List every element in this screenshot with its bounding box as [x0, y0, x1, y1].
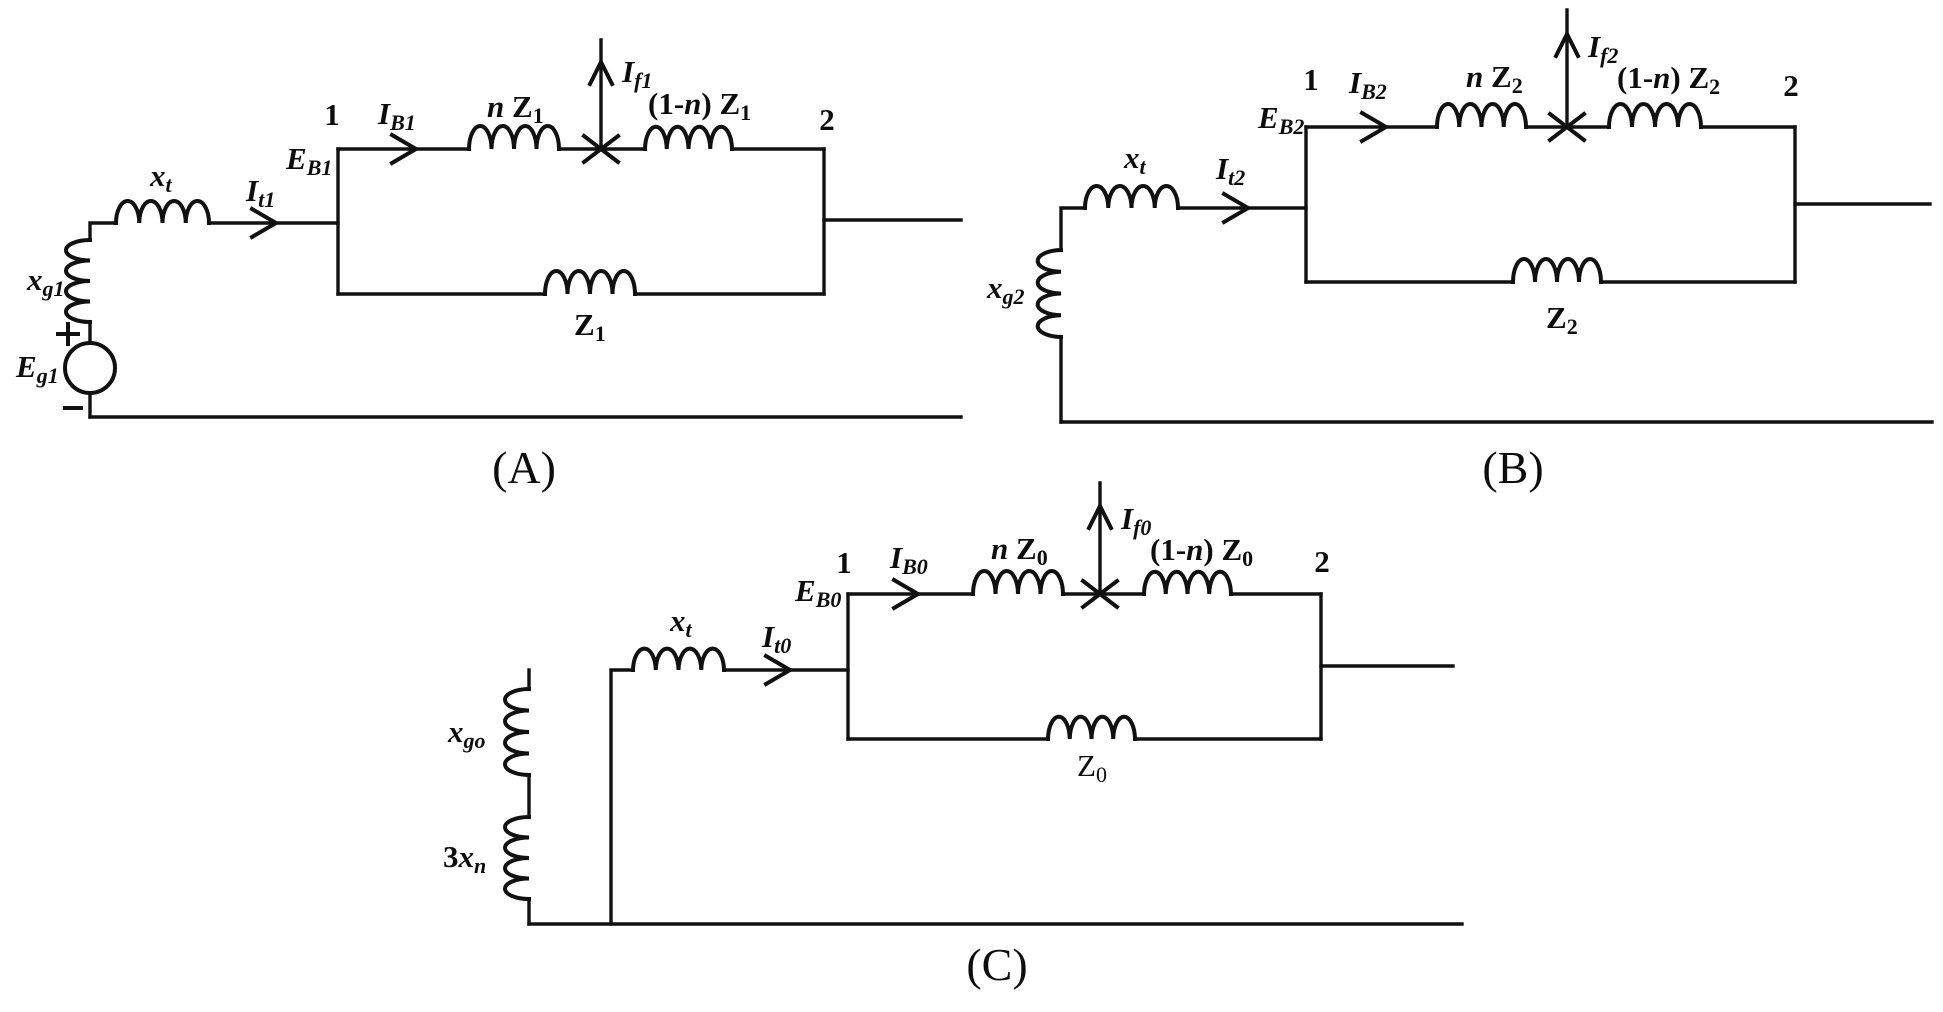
svg-text:xg1: xg1 [26, 262, 65, 301]
wire return bottom (C) [529, 922, 1462, 925]
wire 3xn bottom stem [527, 899, 530, 924]
svg-text:n Z2: n Z2 [1466, 59, 1523, 98]
svg-text:Eg1: Eg1 [15, 349, 59, 388]
inductor Z2 [1513, 259, 1601, 282]
svg-text:xt: xt [669, 603, 693, 642]
svg-text:n Z1: n Z1 [487, 89, 544, 128]
wire xg2 down stem [1059, 337, 1062, 422]
fault X mark (A) [584, 136, 618, 162]
wire top branch right (C) [1231, 592, 1321, 595]
arrow I_f1 [590, 62, 612, 84]
node 2 bus (B) [1793, 127, 1796, 282]
wire top branch right (B) [1701, 125, 1795, 128]
arrow I_f0 [1089, 506, 1111, 528]
inductor x_g1 [66, 240, 90, 322]
wire output (C) [1321, 664, 1453, 667]
node 1 bus (C) [846, 594, 849, 739]
source E_g1 [65, 343, 115, 393]
wire under fault point (A) [559, 147, 645, 150]
svg-text:Z1: Z1 [574, 307, 606, 346]
svg-text:(A): (A) [492, 442, 556, 493]
fault X mark (C) [1083, 581, 1117, 607]
wire top branch left [338, 147, 469, 150]
svg-text:(1-n) Z0: (1-n) Z0 [1150, 532, 1253, 571]
inductor x_t (A) [116, 201, 209, 223]
wire output (B) [1795, 202, 1930, 205]
wire bottom branch left (C) [848, 737, 1048, 740]
minus sign [65, 406, 81, 410]
node 2 bus (C) [1319, 594, 1322, 739]
svg-text:(C): (C) [966, 939, 1027, 990]
wire under fault point (B) [1526, 125, 1609, 128]
svg-text:EB0: EB0 [794, 573, 841, 612]
wire bottom branch right (A) [635, 292, 824, 295]
fault X mark (B) [1550, 114, 1584, 140]
wire xt to node 1 (C) [724, 668, 848, 671]
svg-text:xg2: xg2 [986, 270, 1025, 309]
wire under fault point (C) [1063, 592, 1144, 595]
svg-text:Z0: Z0 [1077, 748, 1107, 787]
wire xgo top stem [527, 670, 530, 689]
wire xg1 top to corner [90, 223, 116, 240]
inductor x_t (B) [1085, 186, 1178, 208]
plus sign [58, 324, 78, 344]
wire riser to xt (C) [611, 670, 633, 924]
svg-text:EB2: EB2 [1257, 100, 1304, 139]
wire between xgo and 3xn [527, 775, 530, 817]
arrow I_B0 [894, 580, 918, 608]
wire bottom branch left (B) [1306, 280, 1513, 283]
svg-text:(B): (B) [1482, 442, 1543, 493]
arrow I_t2 [1224, 194, 1248, 222]
svg-text:(1-n) Z1: (1-n) Z1 [648, 86, 751, 125]
wire return bottom (A) [90, 415, 961, 418]
svg-text:1: 1 [324, 97, 340, 132]
svg-text:It2: It2 [1215, 151, 1245, 190]
wire top branch right [732, 147, 824, 150]
svg-text:IB0: IB0 [889, 540, 928, 579]
fault line I_f2 [1565, 10, 1568, 127]
inductor x_t (C) [633, 649, 724, 670]
inductor (1-n) Z1 [645, 127, 732, 149]
inductor n Z0 [973, 571, 1063, 594]
wire xg2 top corner [1061, 208, 1085, 250]
wire source bottom stem [88, 393, 91, 417]
wire top branch left (C) [848, 592, 973, 595]
svg-text:It1: It1 [245, 173, 275, 212]
svg-text:1: 1 [1303, 62, 1319, 97]
svg-text:IB2: IB2 [1348, 65, 1387, 104]
inductor x_go [505, 689, 529, 775]
inductor n Z2 [1437, 104, 1526, 127]
svg-text:n Z0: n Z0 [991, 531, 1048, 570]
svg-text:(1-n) Z2: (1-n) Z2 [1617, 60, 1720, 99]
node 1 bus (A) [336, 149, 339, 294]
svg-text:It0: It0 [761, 619, 791, 658]
wire output (A) [824, 218, 961, 221]
svg-text:2: 2 [1783, 68, 1799, 103]
fault line I_f1 [599, 40, 602, 149]
inductor Z1 [545, 271, 635, 294]
arrow I_f2 [1556, 34, 1578, 56]
svg-text:EB1: EB1 [285, 141, 332, 180]
wire source top stem [88, 322, 91, 343]
wire bottom branch left (A) [338, 292, 545, 295]
svg-text:xgo: xgo [447, 714, 486, 753]
inductor n Z1 [469, 126, 559, 149]
svg-text:2: 2 [819, 102, 835, 137]
wire xt to node 1 [209, 221, 338, 224]
wire bottom branch right (B) [1601, 280, 1795, 283]
inductor (1-n) Z2 [1609, 104, 1701, 127]
arrow I_t1 [252, 209, 276, 237]
node 1 bus (B) [1304, 127, 1307, 282]
svg-text:3xn: 3xn [443, 839, 486, 878]
arrow I_B1 [392, 135, 416, 163]
wire return bottom (B) [1061, 420, 1932, 423]
inductor 3x_n [505, 817, 529, 899]
svg-text:Z2: Z2 [1546, 300, 1578, 339]
inductor (1-n) Z0 [1144, 572, 1231, 594]
wire bottom branch right (C) [1135, 737, 1321, 740]
svg-text:xt: xt [1123, 140, 1147, 179]
svg-text:If2: If2 [1587, 29, 1618, 68]
svg-text:xt: xt [149, 158, 173, 197]
arrow I_B2 [1362, 113, 1386, 141]
inductor x_g2 [1038, 250, 1061, 337]
arrow I_t0 [766, 656, 790, 684]
svg-text:IB1: IB1 [377, 96, 416, 135]
svg-text:1: 1 [836, 545, 852, 580]
wire xt to node 1 (B) [1178, 206, 1306, 209]
svg-text:2: 2 [1314, 544, 1330, 579]
wire top branch left (B) [1306, 125, 1437, 128]
fault line I_f0 [1098, 483, 1101, 594]
inductor Z0 [1048, 717, 1135, 739]
svg-text:If0: If0 [1120, 501, 1151, 540]
node 2 bus (A) [822, 149, 825, 294]
